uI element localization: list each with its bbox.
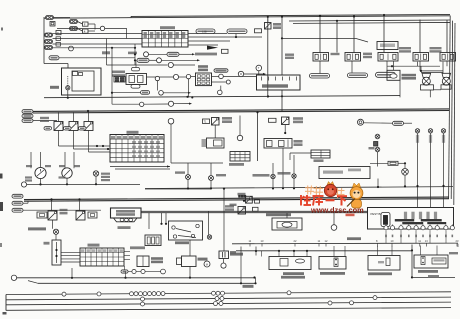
svg-text:23: 23 [456, 239, 459, 243]
svg-text:22: 22 [294, 239, 297, 243]
svg-text:F: F [57, 31, 59, 35]
svg-text:13: 13 [261, 239, 264, 243]
svg-text:10: 10 [391, 239, 394, 243]
svg-text:F: F [84, 23, 86, 27]
svg-text:11: 11 [318, 239, 321, 243]
svg-text:11: 11 [249, 239, 252, 243]
svg-text:8: 8 [376, 239, 378, 243]
svg-text:M: M [206, 262, 208, 266]
svg-text:11: 11 [418, 239, 421, 243]
svg-text:www.dzsc.com: www.dzsc.com [310, 206, 364, 215]
svg-text:12: 12 [325, 239, 328, 243]
svg-text:13B: 13B [202, 30, 207, 34]
svg-text:M: M [240, 73, 242, 76]
svg-text:13: 13 [425, 239, 428, 243]
